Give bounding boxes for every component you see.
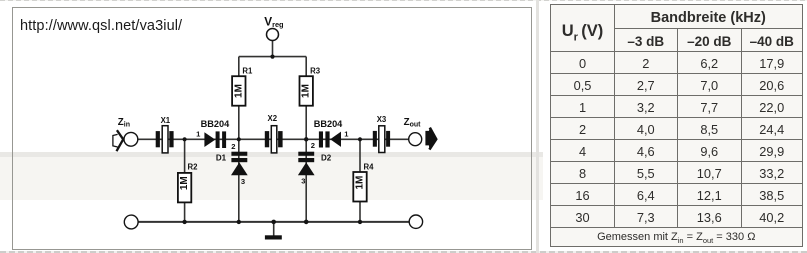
junction dot at Vreg bus (270, 55, 274, 59)
svg-text:1M: 1M (233, 84, 244, 98)
wire: bias bus horizontal (239, 56, 306, 58)
node dot before X3 (R4 tap) (358, 137, 362, 141)
url caption http://www.qsl.net/va3iul/ (20, 18, 182, 34)
rail junction dot D2 (304, 220, 309, 225)
wire: node 2 left down through D1 to rail (238, 139, 240, 222)
wire: node after X1 down through R2 to rail (184, 139, 186, 222)
wire: Vreg stub down to bias bus (272, 40, 274, 56)
wire: bus drop to R1 (238, 57, 240, 77)
bottom-left port circle (124, 215, 138, 229)
ground symbol bar (265, 235, 282, 239)
crystal X1 (156, 116, 174, 153)
input port circle (124, 132, 138, 146)
svg-text:R4: R4 (364, 163, 375, 172)
wire: R1 bottom to node 2 of BB204 left (238, 105, 240, 139)
svg-text:BB204: BB204 (201, 119, 230, 129)
varactor D2 (298, 152, 332, 186)
svg-text:3: 3 (241, 177, 245, 186)
svg-text:Zin: Zin (118, 117, 130, 129)
svg-text:2: 2 (231, 142, 235, 151)
node dot 2 left (237, 137, 241, 141)
measurement table: Bandbreite vs Ur (550, 4, 803, 247)
svg-text:1M: 1M (301, 84, 312, 98)
input port arrow (hollow) (113, 130, 123, 151)
scan artifact: bottom page edge line (0, 251, 807, 253)
svg-text:X3: X3 (377, 115, 387, 124)
svg-text:R2: R2 (188, 163, 199, 172)
resistor R2 (178, 163, 198, 203)
svg-text:D2: D2 (321, 154, 332, 163)
svg-text:1M: 1M (355, 176, 366, 190)
wire: main signal line Zin to Zout (138, 138, 409, 140)
svg-text:Vreg: Vreg (264, 15, 284, 30)
svg-text:1M: 1M (179, 176, 190, 190)
svg-text:BB204: BB204 (314, 119, 343, 129)
resistor R4 (353, 163, 374, 202)
rail junction dot R2 (182, 220, 186, 224)
crystal X3 (373, 115, 390, 153)
varactor BB204 right (mirrored) (314, 119, 350, 148)
svg-text:1: 1 (344, 129, 349, 138)
scan artifact: top page edge line (0, 0, 807, 1)
node dot after X1 (183, 137, 187, 141)
scan artifact: gray horizontal band across schematic (0, 152, 543, 157)
rail junction dot R4 (358, 220, 362, 224)
varactor D1 (cathode bars up, anode triangle up) (216, 152, 248, 186)
svg-text:2: 2 (311, 141, 315, 150)
resistor R1 (232, 66, 253, 105)
wire: bus drop to R3 (305, 57, 307, 77)
svg-text:X1: X1 (161, 116, 171, 125)
power Vreg terminal circle (267, 29, 279, 41)
svg-text:Zout: Zout (404, 117, 422, 129)
svg-text:R3: R3 (310, 66, 321, 75)
output arrow (solid) (425, 128, 436, 150)
bottom-right port circle (409, 215, 422, 228)
output port circle (409, 133, 422, 146)
wire: node after BB204 right down through R4 to rail (359, 139, 361, 222)
wire: bottom ground rail (138, 221, 409, 223)
node dot 2 right (304, 137, 308, 141)
schematic frame box (12, 7, 532, 250)
wire: ground stub (273, 222, 275, 236)
svg-text:X2: X2 (268, 114, 278, 123)
resistor R3 (300, 66, 321, 105)
crystal X2 (265, 114, 283, 153)
svg-text:D1: D1 (216, 153, 227, 162)
varactor BB204 left (diode + double cathode bars) (201, 119, 236, 151)
wire: R3 bottom through node to D2 and ground rail (305, 105, 307, 222)
rail junction dot D1 (237, 220, 241, 224)
svg-text:R1: R1 (242, 66, 253, 75)
scan artifact: vertical seam between schematic and table (536, 0, 539, 253)
rail junction dot ground (271, 220, 276, 225)
svg-text:1: 1 (196, 129, 201, 138)
svg-text:3: 3 (301, 177, 305, 186)
